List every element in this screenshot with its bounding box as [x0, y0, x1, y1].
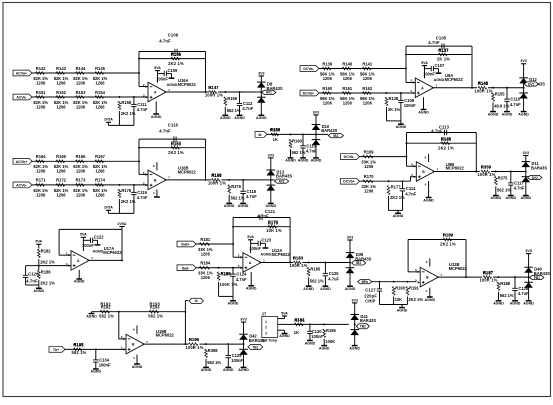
junction row2 lp C (U9A): [400, 92, 402, 94]
svg-text:1206: 1206: [76, 169, 86, 174]
wire ACVa+ row: [32, 72, 139, 74]
svg-text:5VA: 5VA: [80, 233, 87, 237]
resistor R153: [73, 90, 88, 110]
svg-text:1206: 1206: [36, 80, 46, 85]
wire U17A feedback top: [59, 228, 122, 230]
svg-text:ACVb+: ACVb+: [16, 160, 28, 164]
svg-text:R160: R160: [322, 86, 333, 91]
ground R188: [493, 292, 504, 306]
junction BPa R191: [406, 281, 408, 283]
svg-text:TB1: TB1: [252, 345, 258, 349]
svg-text:100R 1%: 100R 1%: [289, 263, 307, 268]
U19B clamp diode pair D42: [239, 322, 248, 358]
svg-text:AGND: AGND: [223, 368, 234, 372]
resistor R180: [217, 271, 231, 280]
svg-text:1206: 1206: [76, 192, 86, 197]
net oval AV2: [275, 179, 289, 183]
resistor R184: [198, 261, 213, 281]
svg-text:562 1%: 562 1%: [500, 293, 514, 298]
labels R180: [220, 272, 238, 288]
input tag ACVb+: [13, 158, 32, 164]
svg-text:R160: R160: [292, 138, 303, 143]
capacitor C116: [174, 136, 176, 141]
svg-text:MCP6022: MCP6022: [449, 266, 468, 271]
power 3V3 for D11: [523, 151, 529, 156]
svg-text:2K2 1%: 2K2 1%: [40, 260, 55, 265]
capacitor C119: [131, 185, 148, 214]
svg-text:C127: C127: [365, 287, 376, 292]
resistor R183: [293, 255, 304, 264]
wire U17A output: [88, 259, 123, 261]
svg-text:4.7nF: 4.7nF: [428, 40, 440, 45]
junction U12B feedback out: [465, 276, 467, 278]
junction J7 row R195: [323, 323, 325, 325]
svg-text:R170: R170: [364, 174, 375, 179]
label D40 BAR43S: [534, 267, 550, 276]
junction row2 divider C (b): [133, 184, 135, 186]
resistor R168: [212, 173, 223, 182]
ground C125: [320, 286, 331, 291]
svg-text:1206: 1206: [76, 80, 86, 85]
wire R158 bottom: [118, 111, 120, 125]
junction clamp C (U12B): [514, 276, 516, 278]
U17A power 5VA: [80, 233, 87, 251]
junction feedback to output: [205, 91, 207, 93]
svg-text:562 1%: 562 1%: [310, 278, 324, 283]
resistor R162: [360, 86, 375, 106]
svg-text:2K2 1%: 2K2 1%: [168, 150, 184, 155]
resistor R142: [33, 66, 48, 86]
svg-text:5VA: 5VA: [421, 61, 428, 65]
J7 row clamp diode pair D41: [350, 303, 359, 339]
svg-text:DV2: DV2: [532, 176, 538, 180]
junction clamp R (U9A): [492, 87, 494, 89]
svg-text:4.7nF: 4.7nF: [137, 195, 148, 200]
ground below U16B: [154, 196, 160, 198]
svg-text:1206: 1206: [201, 275, 211, 280]
svg-text:R162: R162: [362, 86, 373, 91]
resistor R196: [189, 337, 200, 346]
svg-text:R153: R153: [76, 90, 87, 95]
net oval DV1: [524, 82, 538, 86]
resistor R158 (bias): [118, 100, 136, 116]
svg-text:1206: 1206: [363, 76, 373, 81]
svg-text:R190: R190: [395, 286, 406, 291]
resistor R139: [320, 61, 335, 81]
resistor R182: [37, 248, 55, 264]
svg-text:3V3: 3V3: [240, 318, 246, 322]
svg-text:DCVb-: DCVb-: [344, 155, 356, 159]
svg-text:BAR43S: BAR43S: [321, 128, 337, 133]
svg-text:C122: C122: [94, 235, 105, 240]
svg-text:ACVb-: ACVb-: [16, 183, 28, 187]
svg-text:100R 1%: 100R 1%: [208, 181, 226, 186]
input tag DCVb+: [341, 178, 360, 184]
svg-text:100nF: 100nF: [249, 246, 261, 251]
ground R375: [491, 186, 502, 200]
junction diode pair D11: [525, 171, 527, 173]
svg-text:DCVa+: DCVa+: [303, 92, 314, 96]
resistor R188: [497, 281, 514, 298]
svg-text:R195: R195: [326, 328, 337, 333]
net oval IB2: [328, 134, 343, 138]
svg-text:AGND: AGND: [418, 111, 429, 115]
input tag Ib: [255, 132, 267, 138]
svg-text:DCVb+: DCVb+: [343, 180, 355, 184]
wire U9A feedback left rail: [405, 46, 407, 82]
wire U9A output: [432, 87, 477, 89]
wire U19B clamp: [200, 343, 244, 345]
svg-text:AGND: AGND: [228, 302, 239, 306]
svg-text:R175: R175: [121, 188, 132, 193]
U17A bypass cap C122: [91, 238, 93, 243]
labels R146: [168, 52, 184, 66]
svg-text:R194: R194: [294, 318, 305, 323]
labels R159: [270, 128, 281, 143]
wire U9B feedback right rail: [475, 133, 477, 172]
svg-text:R141: R141: [362, 61, 373, 66]
svg-text:10K: 10K: [395, 297, 403, 302]
ground BPa filter: [397, 305, 408, 313]
resistor R160b: [320, 86, 335, 106]
label D13 BAR43S: [276, 169, 292, 178]
wire U9A clamp: [488, 87, 524, 89]
U19B V+ stub: [136, 326, 138, 334]
net oval IB1: [352, 261, 366, 265]
svg-text:562 1%: 562 1%: [99, 313, 114, 318]
input tag Ibat+: [177, 241, 196, 247]
svg-text:3V3: 3V3: [313, 110, 319, 114]
junction DCVb- to rail: [406, 156, 408, 158]
wire R191 bottom: [406, 297, 408, 305]
svg-text:AGND: AGND: [261, 252, 272, 256]
svg-text:4.7nF: 4.7nF: [159, 39, 171, 44]
svg-text:4.7uF: 4.7uF: [518, 291, 529, 296]
svg-text:BAR43S: BAR43S: [531, 165, 547, 170]
capacitor C125: [323, 263, 340, 287]
resistor R376: [228, 184, 245, 201]
ground lp U9B: [393, 210, 404, 218]
junction row2 divider R (b): [118, 184, 120, 186]
svg-text:100nF: 100nF: [404, 103, 416, 108]
svg-text:AGND: AGND: [151, 115, 162, 119]
svg-text:R147: R147: [208, 85, 219, 90]
wire U9A feedback right rail: [471, 46, 473, 88]
input tag DCVa+: [300, 90, 319, 96]
svg-text:AGND: AGND: [506, 196, 517, 200]
svg-text:100K 1%: 100K 1%: [220, 282, 238, 287]
junction clamp C (b): [242, 179, 244, 181]
svg-text:DV1: DV1: [528, 82, 534, 86]
resistor R190: [392, 286, 405, 302]
svg-text:4.7nF: 4.7nF: [137, 107, 148, 112]
svg-text:R192: R192: [100, 302, 111, 307]
U12B V+ stub: [429, 258, 431, 266]
ground lp U9A: [396, 121, 407, 129]
resistor R375: [494, 176, 511, 193]
net oval DV2: [528, 175, 542, 179]
svg-text:AGND: AGND: [396, 125, 407, 129]
svg-text:1206: 1206: [323, 100, 333, 105]
svg-text:R152: R152: [56, 90, 67, 95]
svg-text:2K2 1%: 2K2 1%: [40, 281, 55, 286]
junction row2 divider C: [133, 96, 135, 98]
svg-text:AGND: AGND: [266, 204, 277, 208]
U17A bypass wire 2: [93, 239, 98, 241]
net oval TB1: [248, 345, 263, 350]
svg-text:MCP6022: MCP6022: [178, 170, 197, 175]
svg-text:R185: R185: [310, 267, 321, 272]
ground R155: [488, 103, 499, 117]
svg-text:3V3: 3V3: [268, 153, 274, 157]
svg-text:R163: R163: [171, 141, 182, 146]
wire 2V5A bias bottom: [108, 124, 133, 126]
labels R163: [168, 141, 184, 155]
capacitor C106: [175, 49, 177, 54]
wire Ib row: [267, 133, 328, 135]
op-amp U17A: [66, 251, 93, 271]
junction Ib clamp C: [302, 133, 304, 135]
wire lp bottom (U12A): [219, 295, 233, 297]
resistor R173: [73, 178, 88, 198]
resistor R177: [387, 185, 405, 200]
resistor R138 (lp): [385, 96, 400, 112]
ground C118: [238, 203, 249, 208]
U12B V- stub: [429, 288, 431, 297]
resistor R159: [271, 127, 282, 136]
wire U9B feedback left rail: [406, 133, 408, 167]
wire U9B clamp: [491, 171, 526, 173]
label U9B: [446, 162, 465, 171]
labels R195b: [72, 343, 87, 355]
capacitor C118: [240, 180, 257, 204]
capacitor C110: [504, 88, 521, 112]
svg-text:C106: C106: [168, 33, 179, 38]
U16A bypass labels: [156, 68, 178, 87]
junction U9B feedback mid: [406, 142, 408, 144]
ground below U16A: [151, 102, 162, 120]
svg-text:R167: R167: [95, 154, 106, 159]
svg-text:2K2 1%: 2K2 1%: [440, 242, 456, 247]
U16A bypass AGND: [169, 74, 175, 79]
wire U12B pin6 stub: [408, 271, 420, 273]
capacitor C111: [131, 97, 148, 125]
svg-text:AGND: AGND: [521, 196, 532, 200]
labels R183: [289, 256, 307, 268]
svg-text:1206: 1206: [36, 192, 46, 197]
svg-text:AGND: AGND: [74, 280, 85, 284]
U16A bypass cap C109: [164, 71, 166, 76]
ground D42: [238, 358, 249, 372]
svg-text:562 1%: 562 1%: [148, 313, 163, 318]
svg-text:4.7nF: 4.7nF: [405, 191, 416, 196]
wire Tb+ row: [65, 348, 126, 350]
resistor R195b: [74, 342, 85, 351]
label D12 BAR43S: [529, 77, 545, 86]
svg-text:AGND: AGND: [425, 298, 436, 302]
svg-text:R376: R376: [231, 184, 242, 189]
wire Ibat+ row: [196, 243, 233, 245]
svg-text:R169: R169: [364, 149, 375, 154]
wire DCVb+ row: [360, 180, 411, 182]
ground C134: [91, 369, 102, 374]
wire U12B feedback left rail: [407, 240, 409, 272]
power 3V3 for D10: [313, 110, 319, 115]
wire lp bottom (U9A): [387, 120, 401, 122]
svg-text:AGND: AGND: [305, 341, 316, 345]
svg-text:AGND: AGND: [303, 287, 314, 291]
label U12B: [449, 262, 468, 271]
U17A bypass labels: [82, 235, 104, 254]
op-amp U16A: [143, 82, 170, 102]
svg-text:MCP6022: MCP6022: [446, 166, 465, 171]
U16B V- stub: [156, 189, 158, 197]
svg-text:R179: R179: [268, 220, 279, 225]
resistor R145: [93, 66, 108, 86]
U12A bypass AGND: [263, 243, 269, 248]
svg-text:3: 3: [265, 331, 267, 335]
wire U12A feedback top: [233, 217, 290, 219]
power 3V3 for D12: [520, 59, 526, 64]
resistor R154: [93, 90, 108, 110]
svg-text:Bat Temp: Bat Temp: [262, 339, 277, 343]
wire J7 pin2 row: [278, 323, 349, 325]
U16B clamp diode pair D13: [267, 158, 276, 194]
svg-text:C116: C116: [168, 122, 179, 127]
svg-text:3V3: 3V3: [258, 71, 264, 75]
svg-text:2: 2: [265, 326, 267, 330]
ground R398: [201, 359, 212, 372]
wire U16B output: [165, 179, 212, 181]
label U12A: [272, 248, 291, 257]
ground D10: [311, 149, 322, 163]
wire U12A clamp: [303, 262, 351, 264]
ground R156: [220, 107, 231, 120]
wire U12B clamp: [493, 276, 529, 278]
svg-text:2V5A: 2V5A: [104, 118, 113, 122]
svg-text:3V3: 3V3: [347, 235, 353, 239]
resistor R140: [340, 61, 355, 81]
junction diode pair D12: [523, 87, 525, 89]
resistor R193: [149, 305, 160, 314]
U12A bypass wire 2: [260, 242, 265, 244]
svg-text:C107: C107: [435, 63, 446, 68]
svg-text:4.7nF: 4.7nF: [236, 277, 247, 282]
resistor R161: [340, 86, 355, 106]
junction BPa C127: [379, 281, 381, 283]
labels R194: [294, 318, 306, 335]
svg-text:R143: R143: [56, 66, 67, 71]
net oval PB1: [530, 275, 544, 279]
ground below U12A: [246, 272, 257, 291]
junction Ib clamp R: [290, 133, 292, 135]
capacitor C115: [300, 134, 317, 158]
label C121 value: [257, 209, 276, 218]
junction divider node: [38, 265, 40, 267]
svg-text:100nF: 100nF: [423, 71, 435, 76]
wire R180 bottom: [218, 282, 220, 297]
junction diode pair D41: [354, 323, 356, 325]
svg-text:R165: R165: [56, 154, 67, 159]
U9B power pin numbers: [425, 156, 427, 187]
ground D11: [521, 186, 532, 201]
junction diode pair D39: [349, 262, 351, 264]
U12A power 5VA: [247, 235, 254, 253]
junction clamp R (U12B): [498, 276, 500, 278]
svg-text:MCP6022: MCP6022: [156, 333, 175, 338]
svg-text:2K 1%: 2K 1%: [388, 107, 401, 112]
svg-text:R158: R158: [121, 100, 132, 105]
wire U17A feedback left rail: [58, 229, 60, 255]
svg-text:1206: 1206: [56, 80, 66, 85]
label U9A: [445, 73, 464, 82]
resistor R186: [37, 269, 55, 285]
labels R137: [437, 48, 450, 62]
svg-text:3V3: 3V3: [520, 59, 526, 63]
wire U9B pin6 stub: [407, 165, 417, 167]
svg-text:1K: 1K: [294, 330, 300, 335]
net oval AV1: [262, 90, 276, 94]
capacitor C134: [93, 349, 111, 369]
svg-text:AGND: AGND: [234, 116, 245, 120]
junction node ACVa+ to rail: [138, 72, 140, 74]
resistor R152: [54, 90, 69, 110]
power 2V5A (bias U16A): [104, 118, 113, 126]
svg-text:R177: R177: [391, 185, 402, 190]
svg-text:10K 1%: 10K 1%: [266, 228, 282, 233]
U12B power pin numbers: [426, 260, 428, 293]
net oval BPa (source): [358, 280, 372, 284]
svg-text:AGND: AGND: [434, 78, 445, 82]
svg-text:100R 1%: 100R 1%: [479, 278, 497, 283]
wire U12A pin2 stub: [233, 256, 243, 258]
svg-text:C109: C109: [168, 68, 179, 73]
svg-text:R159: R159: [270, 128, 281, 133]
svg-text:3V3: 3V3: [525, 249, 531, 253]
svg-text:4.7nF: 4.7nF: [26, 278, 38, 283]
svg-text:5VA: 5VA: [35, 240, 42, 244]
svg-text:R195: R195: [73, 343, 84, 348]
svg-text:4.7nF: 4.7nF: [514, 186, 525, 191]
label C106 value: [159, 33, 179, 44]
resistor R170: [361, 174, 376, 194]
wire U16A feedback right rail: [205, 52, 207, 93]
svg-text:AGND: AGND: [93, 249, 104, 253]
U16A clamp diode pair D8: [257, 76, 266, 106]
wire BPa row: [372, 281, 417, 283]
svg-text:4.7nF: 4.7nF: [242, 106, 253, 111]
capacitor C124: [230, 268, 247, 297]
wire nodeB to oval: [185, 300, 188, 302]
svg-text:1206: 1206: [363, 100, 373, 105]
wire ACVb- row: [32, 184, 148, 186]
junction U9B feedback out: [475, 171, 477, 173]
svg-text:562 1%: 562 1%: [227, 108, 241, 113]
junction clamp C (U9B): [510, 171, 512, 173]
svg-text:1206: 1206: [364, 189, 374, 194]
svg-text:R180: R180: [221, 272, 232, 277]
op-amp U9A: [410, 78, 437, 98]
resistor R144: [73, 66, 88, 86]
svg-text:ACVa-: ACVa-: [16, 96, 27, 100]
svg-text:MCP6022: MCP6022: [103, 250, 122, 255]
svg-text:AGND: AGND: [518, 112, 529, 116]
svg-text:1206: 1206: [323, 76, 333, 81]
wire J7 pin1 to 5VA: [278, 318, 285, 320]
junction U19B out: [184, 343, 186, 345]
wire R190 bottom: [393, 297, 395, 305]
wire Ibat- row: [196, 267, 243, 269]
